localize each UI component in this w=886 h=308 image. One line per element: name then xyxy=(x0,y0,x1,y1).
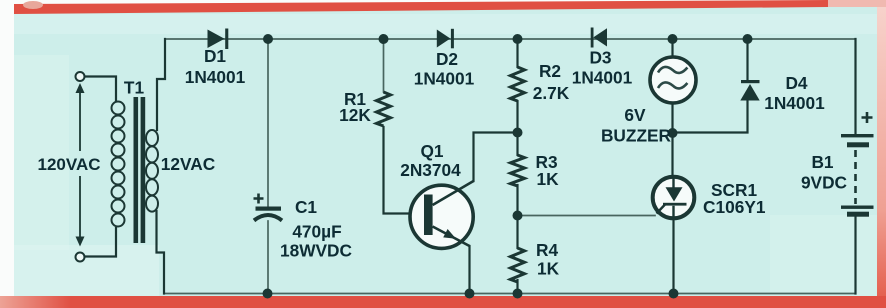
wire C1 branch upper faint xyxy=(267,44,269,206)
diode D4 xyxy=(740,80,759,101)
node dot top R1 xyxy=(379,34,389,44)
svg-text:D1: D1 xyxy=(204,46,226,66)
diode D3 xyxy=(591,28,607,48)
svg-text:1N4001: 1N4001 xyxy=(414,69,475,89)
node dot bottom SCR xyxy=(669,289,679,299)
battery B1 xyxy=(841,112,874,217)
wire left vertical lower (secondary bottom lead) xyxy=(157,211,165,294)
diode D1 xyxy=(208,29,229,50)
transformer T1 primary coil xyxy=(112,102,125,227)
resistor R1 xyxy=(377,92,391,126)
wire D4 branch xyxy=(746,39,748,80)
wire R3 branch xyxy=(516,133,518,156)
transformer T1 secondary coil xyxy=(146,130,158,212)
svg-text:1N4001: 1N4001 xyxy=(764,93,825,113)
svg-text:1N4001: 1N4001 xyxy=(572,68,633,88)
node dot bottom emitter xyxy=(465,289,475,299)
wire top rail xyxy=(165,38,856,40)
svg-text:Q1: Q1 xyxy=(420,141,443,161)
svg-text:12K: 12K xyxy=(339,105,371,125)
capacitor C1 xyxy=(254,194,283,221)
svg-text:470µF: 470µF xyxy=(292,222,341,242)
svg-text:R4: R4 xyxy=(536,240,558,260)
diode D2 xyxy=(437,29,454,49)
wire bottom rail xyxy=(164,293,856,295)
node dot top D4 xyxy=(743,34,753,44)
wire left vertical upper (secondary top lead) xyxy=(157,39,165,130)
wire primary bottom lead xyxy=(85,228,117,257)
wire Q1 collector to R2/R3 node xyxy=(474,133,518,182)
wire buzzer to SCR xyxy=(671,103,673,177)
node dot top R2 xyxy=(513,34,523,44)
svg-text:120VAC: 120VAC xyxy=(38,155,101,174)
node dot top buzzer xyxy=(668,34,678,44)
transformer T1 primary terminal top xyxy=(76,72,85,81)
svg-text:18WVDC: 18WVDC xyxy=(280,241,352,261)
resistor R3 xyxy=(511,155,525,186)
resistor R2 xyxy=(511,67,525,101)
buzzer BZ1 xyxy=(650,57,696,103)
wire gate from R3/R4 node to SCR faint xyxy=(522,215,655,217)
svg-text:6V: 6V xyxy=(624,105,646,125)
transformer T1 core xyxy=(134,97,139,243)
wire C1 branch lower faint xyxy=(267,221,269,294)
wire SCR cathode to bottom rail xyxy=(672,218,674,294)
svg-text:BUZZER: BUZZER xyxy=(601,126,672,146)
svg-text:1K: 1K xyxy=(537,169,560,189)
svg-text:R2: R2 xyxy=(539,61,561,81)
svg-text:D4: D4 xyxy=(785,73,807,93)
svg-text:C106Y1: C106Y1 xyxy=(703,197,766,217)
svg-text:2N3704: 2N3704 xyxy=(400,160,461,180)
svg-text:D3: D3 xyxy=(589,48,611,68)
node dot buzzer/D4 junction xyxy=(668,128,678,138)
wire R4 branch xyxy=(516,216,518,249)
node dot R3/R4 junction xyxy=(513,211,523,221)
node dot bottom R4 xyxy=(513,289,523,299)
svg-text:1K: 1K xyxy=(537,259,560,279)
SCR SCR1 xyxy=(653,177,695,219)
node dot bottom C1 xyxy=(263,289,273,299)
wire Q1 emitter to bottom rail xyxy=(468,246,470,294)
svg-text:B1: B1 xyxy=(811,152,833,172)
wire R1 branch upper faint xyxy=(383,44,385,92)
transformer T1 primary terminal bottom xyxy=(76,253,85,262)
node dot R2/R3 junction xyxy=(513,128,523,138)
wire right vertical (battery branch) xyxy=(854,39,856,134)
wire R2 branch xyxy=(516,39,518,67)
svg-text:9VDC: 9VDC xyxy=(801,173,847,193)
transistor Q1 xyxy=(410,181,474,248)
svg-text:T1: T1 xyxy=(124,78,145,98)
node dot top C1 xyxy=(263,34,273,44)
wire primary top lead xyxy=(85,77,117,102)
svg-text:1N4001: 1N4001 xyxy=(185,67,246,87)
wire R1 to Q1 base xyxy=(384,127,424,214)
svg-text:12VAC: 12VAC xyxy=(161,154,215,174)
resistor R4 xyxy=(511,248,525,282)
svg-text:C1: C1 xyxy=(295,197,317,217)
svg-text:2.7K: 2.7K xyxy=(533,83,570,103)
120VAC measure arrow xyxy=(76,83,85,247)
wire buzzer branch top xyxy=(671,39,673,58)
svg-text:D2: D2 xyxy=(436,49,458,69)
